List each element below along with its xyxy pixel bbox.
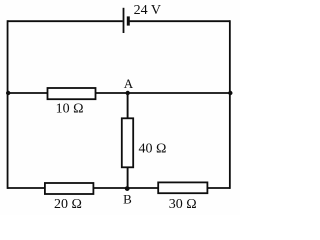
wire middle horizontal through A [8,92,230,94]
battery V1 short plate [127,16,130,25]
svg-text:20 Ω: 20 Ω [54,197,82,212]
wire left side [7,20,9,189]
resistor R4 body [158,182,207,193]
resistor R3 body [45,183,94,194]
resistor R2 body [122,118,133,167]
node A junction dot [126,91,130,95]
wire top-left to battery [8,20,123,22]
svg-text:A: A [124,76,134,91]
node B junction dot [125,186,130,191]
junction dot right end of middle wire [228,91,232,95]
svg-text:30 Ω: 30 Ω [169,197,197,212]
wire vertical branch A to B [127,93,129,188]
battery V1 long plate [123,8,125,33]
svg-text:10 Ω: 10 Ω [56,102,84,117]
svg-text:B: B [123,191,132,206]
junction dot left end of middle wire [6,91,10,95]
wire bottom horizontal through B [8,187,230,189]
wire right side [229,20,231,189]
wire battery to top-right corner [128,20,230,22]
resistor R1 body [48,88,96,99]
svg-text:24 V: 24 V [134,3,161,18]
svg-text:40 Ω: 40 Ω [139,142,167,157]
